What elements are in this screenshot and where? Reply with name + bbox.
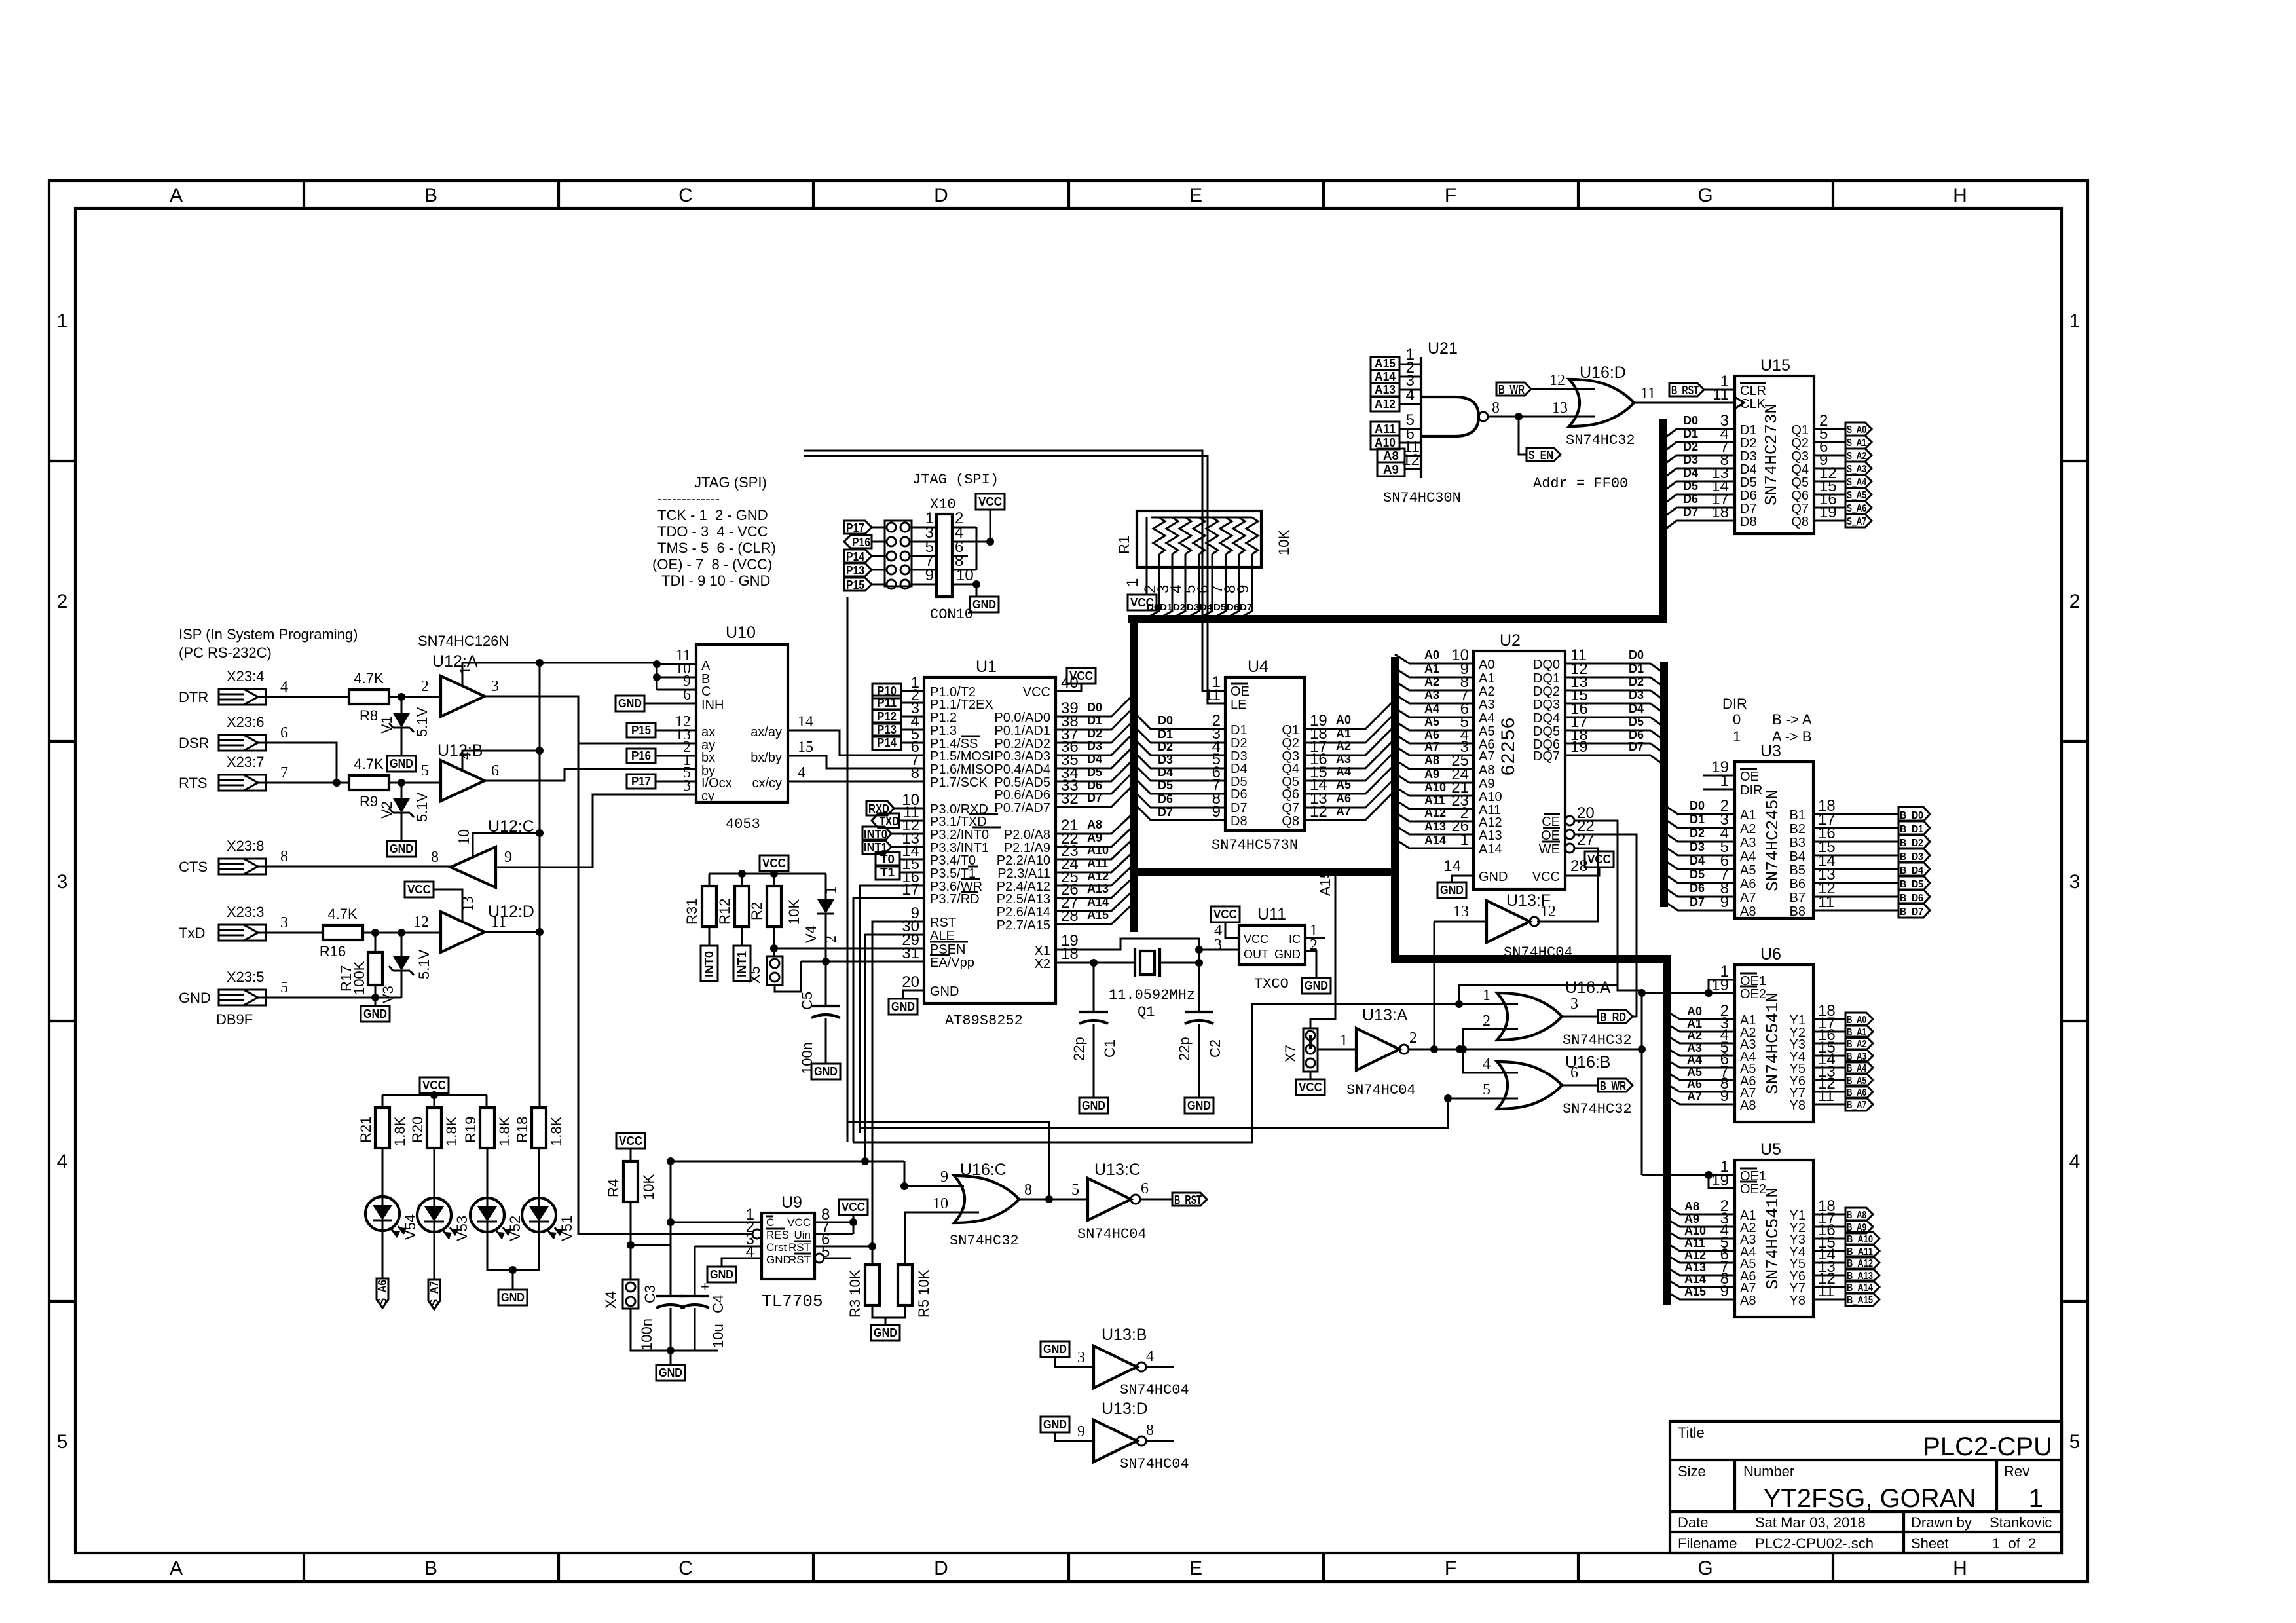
- svg-text:S_A7: S_A7: [428, 1281, 441, 1306]
- svg-text:P13: P13: [877, 723, 897, 736]
- svg-text:100n: 100n: [639, 1318, 655, 1351]
- title block: [1670, 1421, 2062, 1553]
- svg-text:B -> A: B -> A: [1772, 711, 1812, 728]
- svg-text:B_D6: B_D6: [1900, 893, 1923, 904]
- overlines for active-low pin names: [930, 736, 1001, 955]
- svg-text:GND: GND: [179, 990, 211, 1006]
- svg-text:4: 4: [57, 1151, 68, 1172]
- U9 pin1 wire to C3 rail: [671, 1222, 762, 1223]
- net tag S_A7 below V53: [434, 1232, 435, 1280]
- svg-text:A5: A5: [1740, 863, 1756, 878]
- connector X23:5 GND: [219, 990, 266, 1005]
- latch U4 SN74HC573N: [1225, 677, 1305, 830]
- svg-text:cy: cy: [701, 789, 714, 804]
- svg-text:Q2: Q2: [1282, 736, 1299, 751]
- svg-text:A3: A3: [1424, 688, 1439, 701]
- U1 P0 data pin stubs with labels and bus entries: [1056, 694, 1134, 807]
- svg-text:B_A4: B_A4: [1847, 1063, 1866, 1074]
- ground under C5: [811, 1064, 840, 1079]
- capacitor C2 22p: [1198, 963, 1200, 1012]
- svg-text:10K: 10K: [786, 899, 802, 925]
- svg-text:P2.0/A8: P2.0/A8: [1004, 828, 1050, 842]
- svg-text:A7: A7: [1479, 749, 1494, 764]
- svg-text:A11: A11: [1087, 857, 1108, 870]
- zener V3 5.1V: [401, 933, 403, 998]
- svg-text:VCC: VCC: [787, 1216, 811, 1229]
- svg-text:D1: D1: [1690, 813, 1705, 826]
- svg-text:2: 2: [1409, 1030, 1417, 1047]
- resistor R31: [702, 886, 716, 927]
- svg-text:D2: D2: [1690, 827, 1705, 840]
- svg-text:3: 3: [491, 678, 499, 695]
- svg-text:B3: B3: [1790, 836, 1805, 850]
- vertical from U13:A output to bus area: [1434, 922, 1435, 1049]
- svg-text:U13:C: U13:C: [1094, 1161, 1141, 1179]
- net tag P15 at U10 ax: [627, 723, 656, 737]
- resistor R17 100K: [368, 952, 382, 985]
- zener V1 5.1V: [401, 697, 403, 756]
- svg-text:R2: R2: [749, 902, 765, 920]
- VCC above R31 R12 R2: [760, 855, 788, 871]
- svg-text:OE: OE: [1740, 770, 1759, 784]
- svg-text:A12: A12: [1684, 1248, 1706, 1261]
- long vertical from JTAG area down: [847, 597, 849, 1142]
- U1 WR wire down: [860, 886, 924, 1133]
- svg-text:PLC2-CPU: PLC2-CPU: [1923, 1432, 2052, 1461]
- buffer U12:A: [441, 676, 485, 717]
- svg-text:18: 18: [1061, 945, 1079, 963]
- svg-text:1.8K: 1.8K: [496, 1116, 513, 1146]
- resistor R20 1.8K: [427, 1108, 441, 1148]
- svg-text:-------------: -------------: [657, 491, 720, 507]
- net tag P14: [844, 550, 872, 563]
- U16:B input 4 from U13:A output: [1463, 1049, 1518, 1073]
- U9 pin3 wire to C4: [695, 1246, 762, 1248]
- U2 control pins with bubbles: [1565, 816, 1574, 825]
- U1 VCC pin 40: [1056, 684, 1081, 691]
- svg-text:X23:3: X23:3: [227, 904, 265, 920]
- svg-text:C: C: [678, 185, 693, 206]
- svg-text:A15: A15: [1317, 870, 1333, 896]
- LED V54: [382, 1148, 384, 1197]
- svg-text:1: 1: [823, 886, 840, 894]
- resistor R19 1.8K: [480, 1108, 494, 1148]
- svg-text:Q6: Q6: [1282, 787, 1299, 802]
- svg-text:A9: A9: [1479, 777, 1494, 791]
- inverter U13:A: [1318, 1049, 1356, 1051]
- svg-text:D4: D4: [1629, 702, 1644, 715]
- svg-text:3: 3: [2069, 871, 2081, 893]
- svg-text:Stankovic: Stankovic: [1990, 1514, 2052, 1531]
- U16:B input 5 junction: [1448, 1098, 1518, 1100]
- svg-text:A11: A11: [1424, 794, 1445, 807]
- svg-text:VCC: VCC: [1244, 933, 1268, 946]
- svg-text:A14: A14: [1424, 834, 1446, 847]
- net tag B_WR into U16:D: [1496, 382, 1531, 396]
- svg-text:5: 5: [1071, 1182, 1079, 1199]
- U2 address input wires from bus: [1395, 654, 1473, 848]
- svg-text:WE: WE: [1539, 842, 1560, 857]
- V52 V51 common to GND: [487, 1232, 539, 1290]
- svg-text:SN74HC273N: SN74HC273N: [1762, 403, 1781, 506]
- svg-text:C: C: [701, 684, 711, 699]
- svg-text:B_RST: B_RST: [1174, 1193, 1202, 1206]
- svg-text:OE2: OE2: [1740, 1182, 1766, 1197]
- svg-text:VCC: VCC: [1023, 685, 1050, 700]
- svg-text:A9: A9: [1087, 831, 1102, 844]
- svg-text:R9: R9: [360, 793, 378, 810]
- capacitor C4 10u polarized: [694, 1246, 696, 1351]
- svg-text:A0: A0: [1424, 648, 1439, 662]
- svg-text:4.7K: 4.7K: [327, 906, 358, 922]
- svg-text:DIR: DIR: [1722, 696, 1747, 712]
- svg-text:B_RD: B_RD: [1600, 1011, 1626, 1024]
- svg-text:S_A6: S_A6: [1847, 503, 1866, 514]
- svg-text:U16:C: U16:C: [960, 1161, 1007, 1179]
- svg-text:RST: RST: [788, 1241, 811, 1254]
- svg-text:A5: A5: [1479, 724, 1494, 739]
- svg-text:A0: A0: [1479, 658, 1494, 672]
- U1 RD wire down: [853, 898, 924, 1142]
- connector X23:8 CTS: [219, 859, 266, 874]
- resistor R4 10K: [630, 1149, 632, 1161]
- svg-text:9: 9: [1720, 1282, 1729, 1300]
- U1 P2 address pin stubs with labels and bus entries: [1056, 812, 1134, 924]
- svg-text:Sat Mar 03, 2018: Sat Mar 03, 2018: [1755, 1514, 1866, 1531]
- svg-text:OE2: OE2: [1740, 987, 1766, 1001]
- svg-text:B_A3: B_A3: [1847, 1051, 1866, 1062]
- svg-text:C: C: [766, 1216, 774, 1229]
- svg-text:4: 4: [1483, 1056, 1491, 1073]
- svg-text:A2: A2: [1336, 739, 1351, 753]
- U16:A output to B_RD: [1562, 1016, 1598, 1018]
- bus transceiver U3 SN74HC245N: [1735, 762, 1813, 918]
- svg-text:12: 12: [1310, 803, 1327, 821]
- svg-text:13: 13: [1453, 903, 1469, 920]
- capacitor C5 100n: [811, 1006, 840, 1018]
- U5 A input wires from address bus: [1667, 1206, 1735, 1299]
- OR gate U16:C: [954, 1176, 1019, 1223]
- svg-text:1 of 2: 1 of 2: [1992, 1535, 2036, 1552]
- inverter U13:D with grounded input: [1041, 1417, 1069, 1432]
- buffer U12:D: [441, 912, 485, 952]
- svg-text:5: 5: [1483, 1081, 1491, 1098]
- svg-text:B_A10: B_A10: [1847, 1234, 1873, 1245]
- svg-text:P2.6/A14: P2.6/A14: [997, 905, 1050, 920]
- svg-text:SN74HC04: SN74HC04: [1077, 1226, 1147, 1242]
- svg-text:Uin: Uin: [794, 1229, 811, 1241]
- svg-text:D2: D2: [1173, 602, 1185, 613]
- svg-text:A6: A6: [1740, 877, 1756, 891]
- svg-text:U13:A: U13:A: [1362, 1006, 1408, 1024]
- svg-text:DQ1: DQ1: [1533, 671, 1560, 686]
- svg-text:TxD: TxD: [179, 925, 205, 941]
- svg-text:A5: A5: [1687, 1066, 1702, 1079]
- svg-text:5.1V: 5.1V: [414, 707, 430, 737]
- SRAM U2 62256: [1473, 651, 1565, 889]
- svg-text:A10: A10: [1684, 1224, 1706, 1237]
- svg-text:S_A1: S_A1: [1847, 438, 1866, 449]
- U16:B output to B_WR: [1562, 1085, 1598, 1087]
- ground below V1: [387, 756, 416, 772]
- svg-text:R21: R21: [358, 1117, 374, 1143]
- svg-text:P16: P16: [852, 536, 870, 549]
- svg-text:D5: D5: [1629, 715, 1644, 728]
- svg-text:D1: D1: [1158, 728, 1173, 741]
- svg-text:A2: A2: [1424, 675, 1439, 688]
- svg-text:P1.5/MOSI: P1.5/MOSI: [930, 749, 994, 764]
- svg-text:4.7K: 4.7K: [354, 756, 384, 772]
- svg-text:6: 6: [1570, 1064, 1578, 1081]
- svg-text:11.0592MHz: 11.0592MHz: [1109, 987, 1195, 1003]
- svg-text:5.1V: 5.1V: [414, 792, 430, 822]
- net tag P16 at U10 bx: [627, 749, 656, 763]
- svg-text:4: 4: [457, 752, 474, 760]
- svg-text:C: C: [678, 1558, 693, 1579]
- svg-text:A12: A12: [1424, 806, 1446, 819]
- U16:C output to U13:C: [1019, 1199, 1088, 1201]
- svg-text:A6: A6: [1687, 1077, 1702, 1091]
- resistor R9 4.7K: [349, 775, 389, 790]
- RD long wire to U16:A: [853, 1004, 1518, 1142]
- svg-text:(OE) - 7 8 - (VCC): (OE) - 7 8 - (VCC): [652, 556, 772, 572]
- svg-text:G: G: [1697, 1558, 1713, 1579]
- U2 data output wires to B data bus: [1565, 663, 1664, 765]
- U3 OE and DIR wires: [1703, 775, 1735, 789]
- svg-text:B_A12: B_A12: [1847, 1258, 1873, 1269]
- svg-text:D0: D0: [1147, 602, 1159, 613]
- svg-text:R5 10K: R5 10K: [916, 1269, 932, 1318]
- svg-text:SN74HC30N: SN74HC30N: [1383, 490, 1461, 506]
- resistor R3 10K: [872, 1246, 874, 1265]
- svg-text:A7: A7: [1336, 805, 1351, 818]
- svg-text:S_A0: S_A0: [1847, 424, 1866, 436]
- svg-text:A8: A8: [1383, 449, 1399, 462]
- svg-text:A4: A4: [1336, 765, 1351, 778]
- svg-text:11: 11: [491, 914, 506, 931]
- svg-text:12: 12: [1402, 451, 1420, 469]
- svg-text:1: 1: [57, 310, 68, 332]
- svg-text:C4: C4: [710, 1295, 726, 1313]
- svg-text:1.8K: 1.8K: [548, 1116, 565, 1146]
- svg-text:B_A14: B_A14: [1847, 1282, 1873, 1294]
- svg-text:U4: U4: [1248, 658, 1268, 676]
- svg-text:D2: D2: [1231, 736, 1248, 751]
- svg-text:A3: A3: [1336, 753, 1351, 766]
- U1 ALE wire down: [865, 935, 924, 1159]
- svg-text:B_D1: B_D1: [1900, 824, 1923, 835]
- svg-text:Q8: Q8: [1791, 515, 1809, 529]
- svg-text:OE: OE: [1231, 684, 1250, 699]
- svg-text:X23:6: X23:6: [227, 714, 265, 730]
- svg-text:B_D4: B_D4: [1900, 865, 1923, 876]
- connector X23:7 RTS: [219, 775, 266, 791]
- U3 A side wires from B data bus: [1664, 805, 1735, 910]
- svg-text:D3: D3: [1087, 739, 1102, 753]
- svg-text:D1: D1: [1740, 423, 1757, 438]
- svg-text:A14: A14: [1375, 370, 1396, 383]
- svg-text:U16:D: U16:D: [1580, 364, 1626, 382]
- X10 pin2 to pin8 loop: [976, 527, 978, 570]
- svg-text:6: 6: [683, 686, 691, 703]
- svg-text:CTS: CTS: [179, 859, 208, 875]
- svg-text:H: H: [1953, 185, 1967, 206]
- svg-text:bx: bx: [701, 751, 715, 765]
- svg-text:R4: R4: [605, 1179, 621, 1197]
- svg-text:U6: U6: [1760, 945, 1781, 963]
- svg-text:D1: D1: [1683, 427, 1698, 440]
- column labels bottom: [170, 1558, 1967, 1579]
- svg-text:bx/by: bx/by: [750, 751, 782, 765]
- border frame outer: [49, 181, 2088, 1582]
- svg-text:U5: U5: [1760, 1140, 1781, 1159]
- svg-text:TDI - 9 10 - GND: TDI - 9 10 - GND: [657, 572, 770, 589]
- svg-text:P3.7/RD: P3.7/RD: [930, 892, 980, 906]
- svg-text:D7: D7: [1629, 740, 1644, 753]
- net tag S_EN: [1519, 417, 1527, 455]
- svg-text:U21: U21: [1428, 339, 1458, 358]
- ground under C3 C4 X4: [667, 1347, 675, 1354]
- svg-text:6: 6: [491, 762, 499, 779]
- svg-text:3: 3: [1077, 1349, 1085, 1366]
- svg-text:B_D2: B_D2: [1900, 838, 1923, 849]
- svg-text:T0: T0: [880, 853, 895, 866]
- multiplexer U10 4053: [696, 644, 788, 802]
- svg-text:B_A5: B_A5: [1847, 1075, 1866, 1087]
- svg-text:SN74HC573N: SN74HC573N: [1212, 837, 1298, 853]
- row tick marks right: [2062, 461, 2088, 1301]
- row labels left: [57, 310, 68, 1453]
- svg-text:P1.6/MISO: P1.6/MISO: [930, 762, 994, 777]
- svg-text:A15: A15: [1375, 357, 1396, 370]
- DIR direction legend: [1722, 696, 1812, 745]
- row labels right: [2069, 310, 2081, 1453]
- svg-text:17: 17: [902, 881, 919, 899]
- svg-text:TL7705: TL7705: [762, 1292, 823, 1311]
- zener V2 5.1V: [401, 783, 403, 841]
- svg-text:GND: GND: [930, 984, 959, 999]
- VCC above R4: [616, 1133, 645, 1149]
- buffer U5 SN74HC541N: [1735, 1160, 1813, 1317]
- resistor R12: [735, 886, 749, 927]
- svg-text:Rev: Rev: [2004, 1463, 2029, 1480]
- svg-text:4053: 4053: [726, 816, 760, 832]
- svg-text:S_A3: S_A3: [1847, 464, 1866, 475]
- svg-text:1: 1: [1340, 1032, 1348, 1049]
- svg-text:A6: A6: [1424, 728, 1439, 741]
- GND under X10 pin10: [976, 584, 978, 597]
- U16:A input 2 from U13:A output: [1463, 1029, 1518, 1049]
- svg-text:A12: A12: [1087, 870, 1109, 883]
- column tick marks bottom: [304, 1553, 1833, 1582]
- resistor R8 4.7K: [349, 690, 389, 704]
- LED V51: [538, 1148, 540, 1198]
- svg-text:9: 9: [1234, 585, 1252, 593]
- svg-text:Q6: Q6: [1791, 489, 1809, 503]
- svg-text:V51: V51: [559, 1216, 575, 1241]
- svg-text:A1: A1: [1424, 662, 1439, 675]
- svg-text:D: D: [934, 1558, 948, 1579]
- svg-text:X4: X4: [602, 1291, 619, 1309]
- svg-text:A9: A9: [1424, 768, 1439, 781]
- U9 pin2 RES wire from program rail: [752, 1229, 762, 1239]
- U1 RST wire down to U9: [872, 922, 924, 1246]
- OE wire to B_RD vertical: [1574, 834, 1637, 1017]
- svg-text:H: H: [1953, 1558, 1967, 1579]
- svg-text:C2: C2: [1207, 1039, 1223, 1058]
- svg-text:C5: C5: [799, 992, 815, 1010]
- svg-text:V4: V4: [803, 925, 819, 943]
- svg-text:1: 1: [1124, 578, 1141, 587]
- svg-text:3: 3: [57, 871, 68, 893]
- svg-text:Q8: Q8: [1282, 814, 1299, 829]
- svg-text:Q7: Q7: [1791, 502, 1809, 516]
- svg-text:EA/Vpp: EA/Vpp: [930, 956, 974, 970]
- svg-text:ax: ax: [701, 725, 715, 739]
- svg-text:YT2FSG, GORAN: YT2FSG, GORAN: [1764, 1484, 1976, 1513]
- svg-text:13: 13: [1552, 400, 1568, 417]
- svg-text:22p: 22p: [1071, 1037, 1087, 1061]
- svg-text:Q3: Q3: [1791, 449, 1809, 464]
- svg-text:8: 8: [1492, 400, 1500, 417]
- U16:D output to U15 CLK: [1634, 402, 1735, 404]
- VCC over LED resistors: [420, 1077, 449, 1093]
- buffer U6 SN74HC541N: [1735, 965, 1813, 1122]
- svg-text:A10: A10: [1424, 781, 1446, 794]
- wire DTR to R8 to U12:A: [266, 696, 441, 698]
- ground below V2: [387, 841, 416, 857]
- net tag B_RST from U13:C: [1140, 1199, 1172, 1201]
- svg-text:B7: B7: [1790, 891, 1805, 905]
- svg-text:A3: A3: [1740, 836, 1756, 850]
- svg-text:A6: A6: [1336, 792, 1351, 805]
- svg-text:RTS: RTS: [179, 775, 208, 791]
- svg-text:RES: RES: [766, 1229, 789, 1241]
- svg-text:TXCO: TXCO: [1254, 976, 1289, 992]
- svg-text:R12: R12: [716, 899, 733, 925]
- X10 pin stubs and numbers: [912, 527, 990, 584]
- svg-text:D1: D1: [1231, 723, 1248, 737]
- svg-text:100K: 100K: [351, 961, 367, 995]
- svg-text:18: 18: [1711, 504, 1729, 521]
- svg-text:D8: D8: [1231, 814, 1248, 829]
- svg-text:12: 12: [1549, 372, 1565, 389]
- svg-text:2: 2: [57, 591, 68, 612]
- svg-text:11: 11: [1204, 686, 1221, 704]
- resistor R2 10K: [767, 886, 781, 927]
- LED V52: [487, 1148, 489, 1198]
- wire CTS to U12:C input: [266, 866, 451, 868]
- svg-text:1.8K: 1.8K: [443, 1116, 460, 1146]
- R5 to U16:C input 10: [905, 1212, 979, 1265]
- svg-text:A12: A12: [1375, 398, 1396, 411]
- svg-text:1: 1: [2069, 310, 2081, 332]
- svg-text:X2: X2: [1035, 957, 1050, 971]
- svg-text:D1: D1: [1160, 602, 1172, 613]
- U9 pin6 RST to R3 and U1 RST: [815, 1246, 872, 1248]
- U21 input tags A15 A14 A13 A12: [1371, 357, 1405, 476]
- svg-text:D3: D3: [1187, 602, 1199, 613]
- net tag B_RST at U15 CLR: [1669, 383, 1704, 396]
- svg-text:DB9F: DB9F: [216, 1011, 253, 1028]
- B data bus to U3: [1660, 662, 1668, 907]
- svg-text:A4: A4: [1740, 849, 1756, 864]
- svg-text:A13: A13: [1684, 1261, 1706, 1274]
- svg-text:VCC: VCC: [1532, 870, 1560, 884]
- svg-text:A4: A4: [1424, 702, 1439, 715]
- svg-text:D2: D2: [1683, 440, 1698, 453]
- svg-text:X23:5: X23:5: [227, 969, 265, 985]
